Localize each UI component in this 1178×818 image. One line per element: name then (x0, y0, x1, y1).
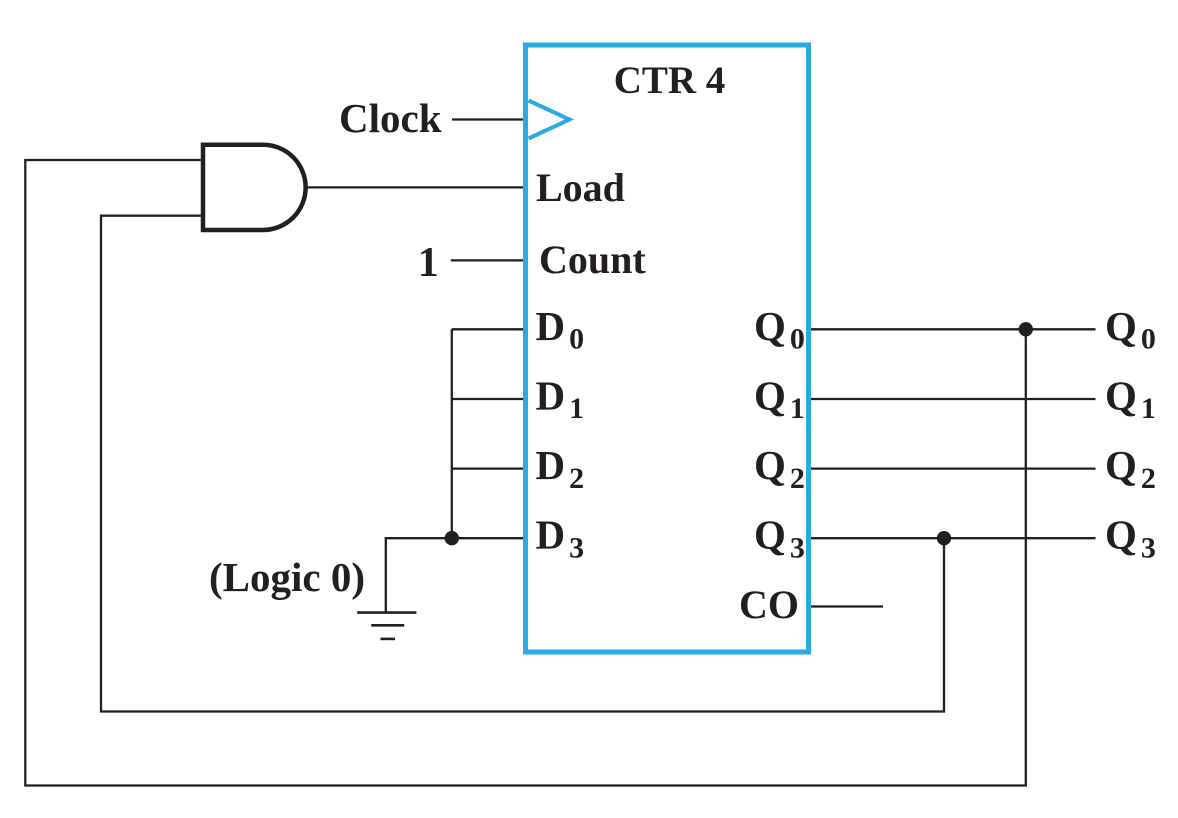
wire: constant 1 to Count pin (451, 259, 523, 261)
junction dot: D3 to ground node (445, 531, 459, 545)
wire: Clock input to U1 (452, 118, 523, 120)
svg-text:Q2: Q2 (754, 442, 805, 495)
wire: ground branch from D bus (386, 538, 452, 612)
junction dot: Q0 feedback node (1019, 322, 1033, 336)
wire: outer feedback loop from Q0 to G1 top input (25, 160, 1026, 786)
svg-text:D2: D2 (536, 442, 585, 495)
svg-text:Q3: Q3 (1105, 512, 1156, 565)
svg-text:CTR 4: CTR 4 (614, 59, 726, 102)
svg-text:Q1: Q1 (1105, 373, 1156, 426)
wire: G1 output to Load pin (306, 186, 523, 188)
AND gate G1 (203, 145, 306, 230)
wire: Q3 output (811, 537, 1096, 539)
svg-text:Q3: Q3 (754, 512, 805, 565)
svg-text:Count: Count (539, 237, 646, 282)
svg-text:Clock: Clock (339, 95, 442, 141)
wire: D input bus vertical (451, 329, 453, 538)
wire: D1 stub (452, 398, 523, 400)
clock edge-trigger triangle pin (529, 101, 570, 139)
svg-text:Q0: Q0 (1105, 303, 1156, 356)
wire: inner feedback loop from Q3 to G1 bottom input (101, 216, 944, 712)
wire: Q2 output (811, 467, 1096, 469)
svg-text:(Logic 0): (Logic 0) (209, 554, 365, 600)
wire: Q1 output (811, 398, 1096, 400)
svg-text:CO: CO (739, 582, 799, 627)
svg-text:D1: D1 (536, 372, 585, 425)
wire: D2 stub (452, 467, 523, 469)
junction dot: Q3 feedback node (937, 531, 951, 545)
wire: D0 stub (452, 328, 523, 330)
svg-text:Q1: Q1 (754, 372, 805, 425)
ground symbol (357, 613, 416, 639)
svg-text:D3: D3 (536, 512, 585, 565)
wire: Q0 output (811, 328, 1096, 330)
wire: D3 stub (452, 537, 523, 539)
svg-text:1: 1 (418, 240, 439, 286)
svg-text:Q2: Q2 (1105, 442, 1156, 495)
svg-text:Load: Load (536, 165, 625, 210)
svg-text:D0: D0 (536, 303, 585, 356)
wire: CO output stub (811, 605, 883, 607)
svg-text:Q0: Q0 (754, 303, 805, 356)
counter block U1 (CTR 4) (526, 45, 809, 652)
